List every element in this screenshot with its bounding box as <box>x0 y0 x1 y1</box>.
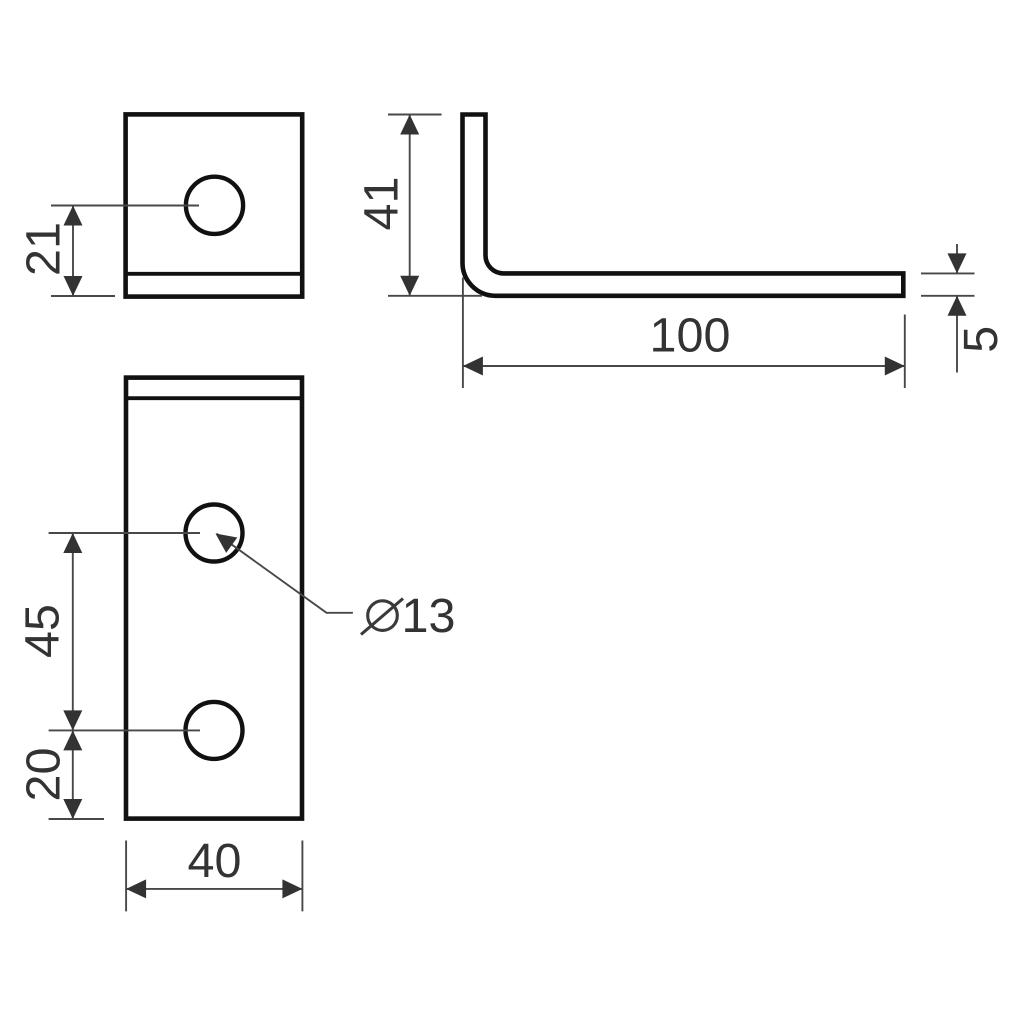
top view: lower hole centerline <box>49 729 200 731</box>
front view: plate outline <box>126 114 303 296</box>
dimension 5: bottom arrow <box>948 296 967 316</box>
dimension 21: bottom extension line <box>51 295 115 297</box>
dimension 100: right arrow <box>885 357 905 376</box>
dimension 21: value label <box>17 222 71 276</box>
svg-text:5: 5 <box>954 326 1008 353</box>
front view: hole centerline <box>51 205 199 207</box>
top view: bend line <box>126 396 302 400</box>
dimension 21: bottom arrow <box>64 276 83 296</box>
dimension 5: upper leader line <box>956 244 958 273</box>
dimension 40: right extension line <box>301 841 303 912</box>
dimension 41: top arrow <box>400 115 419 135</box>
dimension 21: top arrow <box>64 206 83 226</box>
dimension 5: bottom extension line <box>921 295 975 297</box>
svg-text:40: 40 <box>188 834 242 888</box>
dimension 41: value label <box>355 177 409 231</box>
dimension 100: left extension line <box>462 278 464 389</box>
dimension 5: top arrow <box>948 253 967 273</box>
dimension 45: top arrow <box>63 533 82 553</box>
dimension 45: value label <box>16 604 70 658</box>
dimension 20: value label <box>17 748 71 802</box>
top view: upper hole centerline <box>49 532 200 534</box>
dimension 40: left arrow <box>126 879 146 898</box>
dimension 5: top extension line <box>921 272 975 274</box>
dimension 45: bottom arrow <box>63 710 82 730</box>
dimension 40: dimension line <box>126 888 302 890</box>
svg-text:21: 21 <box>17 222 71 276</box>
diameter symbol <box>361 599 403 635</box>
dimension 100: left arrow <box>463 357 483 376</box>
dimension 5: lower leader line <box>956 296 958 373</box>
top view: plate outline <box>126 378 302 819</box>
dimension 21: dimension line <box>72 206 74 297</box>
dimension 41: dimension line <box>409 115 411 296</box>
svg-text:13: 13 <box>402 589 456 643</box>
dimension 20: dimension line <box>72 730 74 819</box>
front view: hole <box>186 177 243 234</box>
dimension 20: bottom arrow <box>63 799 82 819</box>
svg-text:41: 41 <box>355 177 409 231</box>
front view: bend line (5mm thickness) <box>126 272 303 276</box>
dimension 20: top arrow <box>63 730 82 750</box>
dimension 5: value label <box>954 326 1008 353</box>
svg-text:45: 45 <box>16 604 70 658</box>
dimension 20: bottom extension line <box>49 818 104 820</box>
dimension 40: left extension line <box>125 841 127 912</box>
dimension 40: right arrow <box>282 879 302 898</box>
hole diameter leader line <box>217 534 353 613</box>
side view: L-profile outline <box>463 115 904 296</box>
top view: upper hole <box>186 505 243 562</box>
dimension 100: right extension line <box>904 315 906 389</box>
dimension 45: dimension line <box>72 533 74 730</box>
top view: lower hole <box>186 702 243 759</box>
dimension 41: bottom arrow <box>400 276 419 296</box>
svg-text:20: 20 <box>17 748 71 802</box>
svg-text:100: 100 <box>650 309 731 363</box>
dimension 41: top extension line <box>388 114 442 116</box>
dimension 100: dimension line <box>463 365 905 367</box>
hole diameter leader arrow <box>216 534 238 553</box>
dimension 41: bottom extension line <box>388 295 482 297</box>
